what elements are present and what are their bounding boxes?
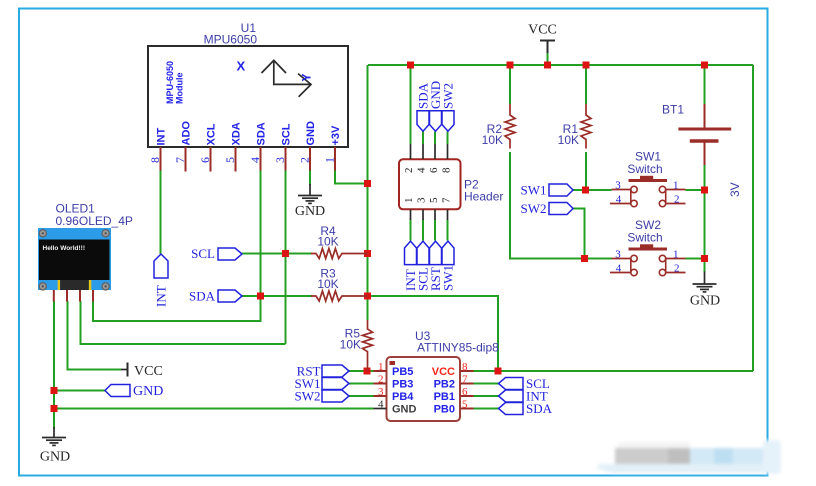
- svg-text:Switch: Switch: [627, 231, 662, 245]
- svg-text:7: 7: [462, 374, 468, 386]
- wire battery column bottom to GND: [704, 165, 706, 273]
- junction +3V: [364, 180, 371, 187]
- switch SW2: [610, 218, 686, 276]
- svg-text:PB3: PB3: [392, 379, 413, 391]
- svg-text:SW2: SW2: [441, 83, 456, 109]
- svg-text:4: 4: [616, 194, 622, 206]
- svg-text:GND: GND: [133, 384, 163, 399]
- junction SDA column: [257, 293, 264, 300]
- U1 pin 5 XDA: [223, 122, 243, 171]
- junction rail VCC: [544, 62, 551, 69]
- U3 pin 7 PB2: [434, 374, 474, 391]
- junction OLED GND flag: [51, 387, 58, 394]
- connector P2 header: [399, 159, 503, 209]
- svg-text:SW2: SW2: [521, 201, 547, 216]
- svg-text:SW1: SW1: [521, 183, 547, 198]
- node INT flag at U3 right: [499, 389, 548, 404]
- svg-text:VCC: VCC: [432, 366, 455, 378]
- P2 pin numbers bottom 1 3 5 7: [403, 197, 453, 203]
- wire U1 pin3 SCL column: [285, 170, 287, 344]
- wire VCC top rail: [368, 64, 753, 66]
- svg-text:8: 8: [441, 167, 453, 173]
- node SW2 flag over P2: [441, 83, 456, 131]
- node SCL flag: [191, 246, 242, 261]
- svg-text:3: 3: [615, 180, 621, 192]
- wire GND long run to U3 pin4: [54, 408, 374, 410]
- node SW2 flag at U3: [295, 389, 350, 404]
- svg-text:PB2: PB2: [434, 379, 455, 391]
- junction SW1 BT1: [701, 187, 708, 194]
- wire SW1 flag to U3 pin2: [349, 383, 374, 385]
- wire U1 pin2 to GND: [309, 170, 311, 185]
- junction rail BT1: [701, 62, 708, 69]
- wire R2 column top: [509, 65, 511, 104]
- wire SW1 flag to switch SW1: [573, 189, 612, 191]
- power VCC bar near OLED: [121, 363, 163, 380]
- wire U1 pin4 SDA column: [260, 170, 262, 296]
- svg-text:SCL: SCL: [191, 246, 215, 261]
- svg-text:5: 5: [223, 157, 237, 163]
- node SCL flag at U3 right: [499, 376, 550, 391]
- svg-text:10K: 10K: [558, 133, 579, 147]
- svg-text:3: 3: [615, 249, 621, 261]
- node INT flag near OLED: [154, 254, 169, 307]
- ground GND below OLED: [40, 427, 70, 465]
- wire RST flag to U3 pin1: [349, 370, 374, 372]
- wire SW2 flag down to SW2 row: [573, 209, 585, 259]
- U1 axis arrows: [237, 59, 314, 97]
- junction R5 RST: [364, 368, 371, 375]
- svg-text:Module: Module: [175, 73, 185, 105]
- wire VCC column x368: [367, 65, 369, 320]
- resistor R1: [558, 104, 591, 149]
- svg-text:10K: 10K: [482, 133, 503, 147]
- wire U3 pin5 to SDA flag: [474, 408, 499, 410]
- svg-text:INT: INT: [154, 285, 169, 307]
- svg-text:SW1: SW1: [441, 265, 456, 291]
- svg-text:SCL: SCL: [281, 123, 293, 145]
- svg-text:SDA: SDA: [189, 289, 216, 304]
- U3 pin 5 PB0: [434, 399, 474, 416]
- wire VCC power stem: [547, 52, 549, 65]
- svg-text:SW2: SW2: [295, 389, 321, 404]
- wire VCC feed to U3 pin8: [368, 296, 499, 371]
- wire VCC right rail: [752, 65, 754, 371]
- wire P2 pin5 stub: [434, 220, 436, 241]
- svg-text:2: 2: [298, 157, 312, 163]
- node SW1 flag at U3: [295, 376, 350, 391]
- svg-text:8: 8: [148, 157, 162, 163]
- svg-text:+3V: +3V: [330, 125, 342, 146]
- U1 pin 8 INT: [148, 128, 168, 171]
- resistor R3: [311, 267, 368, 302]
- junction SCL column: [282, 250, 289, 257]
- wire U3 pin7 to SCL flag: [474, 383, 499, 385]
- P2 pin numbers top 2 4 6 8: [403, 167, 453, 173]
- U1 pin 1 +3V: [323, 125, 343, 171]
- svg-text:3: 3: [378, 386, 384, 398]
- wire SW2 pin1 to battery column: [686, 258, 705, 260]
- svg-text:MPU6050: MPU6050: [204, 33, 258, 47]
- wire SDA flag to R3: [242, 295, 312, 297]
- svg-text:GND: GND: [690, 294, 720, 309]
- ground GND at battery: [690, 272, 720, 309]
- svg-text:GND: GND: [295, 204, 325, 219]
- wire U1 pin8 INT down to INT flag: [160, 170, 162, 254]
- IC U3 ATTINY85-dip8: [387, 329, 500, 421]
- svg-text:3: 3: [273, 157, 287, 163]
- wire P2 pin7 stub: [447, 220, 449, 241]
- svg-text:1: 1: [673, 249, 679, 261]
- junction rail P2: [407, 62, 414, 69]
- wire +3V pin1 U1 to VCC column: [335, 170, 368, 184]
- ground GND under U1 pin2: [295, 184, 325, 219]
- wire battery column top: [704, 65, 706, 105]
- svg-text:GND: GND: [40, 450, 70, 465]
- U3 pin 4 GND: [374, 399, 417, 416]
- wire SW2 flag to U3 pin3: [349, 395, 374, 397]
- wire P2 pin3 stub: [422, 220, 424, 241]
- wire SCL flag to R4: [242, 253, 312, 255]
- svg-text:2: 2: [403, 168, 415, 174]
- svg-text:3V: 3V: [728, 182, 742, 197]
- wire U3 pin6 to INT flag: [474, 395, 499, 397]
- svg-text:XCL: XCL: [206, 123, 218, 145]
- wire SW1 pin1 to battery column: [686, 189, 705, 191]
- svg-text:8: 8: [462, 361, 468, 373]
- junction U3 VCC: [495, 368, 502, 375]
- svg-text:XDA: XDA: [231, 122, 243, 145]
- wire P2 pin6 stub: [434, 132, 436, 145]
- svg-text:4: 4: [616, 263, 622, 275]
- wire R1 column top: [585, 65, 587, 104]
- node SDA flag at U3 right: [499, 401, 553, 416]
- junction rail R2: [507, 62, 514, 69]
- svg-text:SDA: SDA: [526, 401, 553, 416]
- resistor R4: [311, 224, 368, 259]
- node SCL flag under P2: [416, 241, 431, 291]
- battery BT1: [662, 103, 731, 166]
- U3 pin 8 VCC: [432, 361, 474, 378]
- wire R1 column bottom: [585, 152, 587, 190]
- svg-text:5: 5: [462, 399, 468, 411]
- svg-text:4: 4: [416, 167, 428, 173]
- svg-text:SDA: SDA: [256, 122, 268, 145]
- svg-text:5: 5: [428, 197, 440, 203]
- svg-text:10K: 10K: [340, 338, 361, 352]
- junction OLED GND run: [51, 405, 58, 412]
- svg-text:6: 6: [462, 386, 468, 398]
- junction R4 right: [364, 250, 371, 257]
- svg-text:PB0: PB0: [434, 404, 455, 416]
- wire OLED pin2 to VCC bar: [68, 301, 122, 370]
- IC U1 MPU6050: [148, 21, 348, 147]
- svg-text:3: 3: [416, 197, 428, 203]
- svg-text:Hello World!!!: Hello World!!!: [43, 245, 86, 252]
- svg-text:7: 7: [441, 197, 453, 203]
- wire P2 pin8 stub: [447, 132, 449, 145]
- wire OLED pin3 to SCL column: [81, 301, 286, 344]
- svg-text:2: 2: [378, 374, 384, 386]
- svg-text:VCC: VCC: [528, 23, 557, 38]
- wire P2 pin1 stub: [410, 220, 412, 241]
- node GND flag near OLED: [105, 384, 163, 399]
- svg-text:2: 2: [674, 194, 680, 206]
- node SW2 flag near switch: [521, 201, 574, 216]
- node SDA flag: [189, 289, 242, 304]
- node INT flag under P2: [403, 241, 418, 291]
- svg-text:INT: INT: [156, 128, 168, 146]
- U3 pin 6 PB1: [434, 386, 474, 403]
- junction SW2 BT1: [701, 255, 708, 262]
- svg-text:Y: Y: [300, 73, 314, 81]
- U3 pin 3 PB4: [374, 386, 415, 403]
- resistor R5: [340, 320, 373, 371]
- svg-text:2: 2: [674, 263, 680, 275]
- junction SW2 R2: [581, 255, 588, 262]
- svg-text:Header: Header: [464, 190, 503, 204]
- svg-text:GND: GND: [392, 404, 417, 416]
- node RST flag at U3: [297, 364, 349, 379]
- svg-text:BT1: BT1: [662, 103, 684, 117]
- U1 pin 3 SCL: [273, 123, 293, 170]
- svg-text:6: 6: [198, 157, 212, 163]
- P2 black pin stubs: [411, 144, 448, 220]
- junction rail R1: [583, 62, 590, 69]
- wire P2 pin2 from rail: [410, 65, 412, 144]
- wire GND flag stub: [54, 390, 105, 392]
- wire P2 pin4 stub: [422, 132, 424, 145]
- svg-text:VCC: VCC: [134, 364, 163, 379]
- node SW1 flag near switch: [521, 183, 574, 198]
- svg-text:1: 1: [673, 180, 679, 192]
- wire OLED pin1 GND column: [53, 301, 55, 428]
- svg-text:7: 7: [173, 157, 187, 163]
- U1 pin 6 XCL: [198, 123, 218, 171]
- display OLED1 0.96OLED_4P: [38, 202, 133, 291]
- svg-text:4: 4: [248, 157, 262, 163]
- junction R3 right: [364, 293, 371, 300]
- resistor R2: [482, 104, 515, 149]
- svg-text:6: 6: [428, 167, 440, 173]
- junction SW1 R1: [582, 187, 589, 194]
- svg-text:1: 1: [403, 198, 415, 204]
- svg-text:4: 4: [378, 399, 384, 411]
- U1 pin 7 ADO: [173, 121, 193, 172]
- power VCC top: [528, 23, 557, 54]
- svg-text:X: X: [237, 59, 246, 74]
- svg-text:0.96OLED_4P: 0.96OLED_4P: [56, 214, 133, 228]
- node SW1 flag under P2: [441, 241, 456, 291]
- OLED pin stubs: [54, 290, 93, 302]
- wire R2 column bottom to SW2 pin3: [510, 152, 612, 259]
- node RST flag under P2: [428, 241, 443, 291]
- svg-text:ATTINY85-dip8: ATTINY85-dip8: [417, 341, 499, 355]
- svg-text:Switch: Switch: [627, 162, 662, 176]
- svg-text:1: 1: [378, 361, 384, 373]
- svg-text:PB4: PB4: [392, 391, 414, 403]
- watermark blur bottom right: [596, 440, 781, 474]
- svg-text:PB1: PB1: [434, 391, 455, 403]
- wire OLED pin4 to SDA column: [93, 296, 261, 321]
- svg-text:PB5: PB5: [392, 366, 413, 378]
- U1 pin 2 GND: [298, 121, 318, 171]
- U3 pin 1 PB5: [374, 361, 414, 378]
- U1 pin 4 SDA: [248, 122, 268, 170]
- svg-text:1: 1: [323, 157, 337, 163]
- node GND flag over P2: [428, 81, 443, 131]
- svg-text:ADO: ADO: [181, 121, 193, 146]
- node SDA flag over P2: [416, 82, 431, 131]
- svg-text:GND: GND: [305, 121, 317, 146]
- svg-text:MPU-6050: MPU-6050: [165, 61, 175, 104]
- wire U3 pin8 VCC row: [474, 370, 754, 372]
- switch SW1: [610, 150, 686, 207]
- U3 pin 2 PB3: [374, 374, 414, 391]
